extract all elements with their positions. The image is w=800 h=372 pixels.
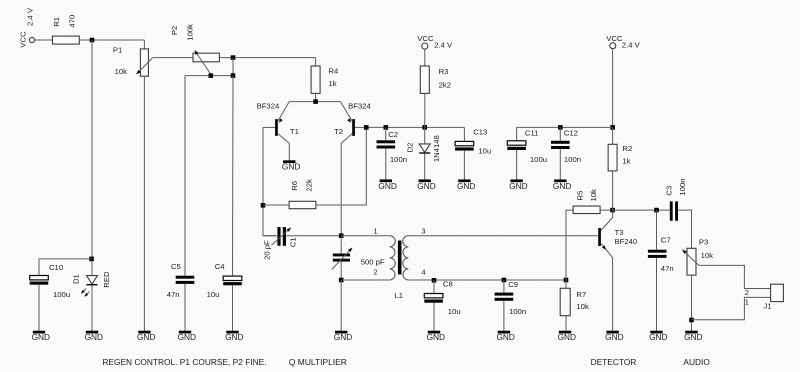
svg-text:GND: GND	[457, 181, 475, 191]
resistor R1	[53, 36, 80, 44]
svg-text:GND: GND	[225, 332, 243, 342]
wire	[184, 76, 186, 276]
power VCC terminal (R3)	[422, 43, 428, 49]
ground (C13)	[458, 179, 470, 182]
svg-text:P2: P2	[170, 26, 179, 35]
svg-text:100n: 100n	[564, 155, 581, 164]
junction (tank top)	[339, 233, 344, 238]
variable capacitor 500 pF	[333, 254, 350, 257]
junction (P2 right)	[231, 55, 236, 60]
capacitor C3 (coupling)	[670, 201, 673, 220]
svg-text:GND: GND	[684, 332, 702, 342]
diode D2 (1N4148)	[419, 144, 430, 152]
svg-text:1k: 1k	[329, 79, 337, 88]
ground (tank)	[335, 331, 347, 334]
wire	[340, 280, 342, 331]
wire	[612, 127, 614, 144]
svg-text:2.4 V: 2.4 V	[622, 41, 641, 50]
svg-text:100n: 100n	[678, 178, 687, 195]
svg-text:100k: 100k	[186, 24, 195, 41]
svg-text:VCC: VCC	[19, 31, 28, 48]
transformer L1 core	[398, 241, 402, 275]
wire	[612, 210, 614, 217]
wire rail to R4	[315, 58, 317, 66]
svg-text:GND: GND	[178, 332, 196, 342]
svg-text:C3: C3	[665, 186, 674, 196]
base rail T2	[366, 126, 464, 128]
svg-text:10u: 10u	[448, 307, 461, 316]
svg-text:C2: C2	[388, 130, 398, 139]
svg-text:C10: C10	[49, 263, 63, 272]
svg-text:GND: GND	[509, 181, 527, 191]
svg-text:J1: J1	[764, 302, 772, 311]
wire	[185, 75, 233, 77]
detector rail right	[613, 209, 670, 211]
svg-text:500 pF: 500 pF	[361, 258, 385, 267]
svg-text:10k: 10k	[589, 189, 598, 202]
svg-text:P3: P3	[699, 238, 708, 247]
capacitor C5	[176, 276, 195, 279]
capacitor C13 (electrolytic)	[455, 141, 474, 145]
svg-text:GND: GND	[334, 332, 352, 342]
svg-text:C8: C8	[443, 280, 453, 289]
wire	[612, 171, 614, 210]
svg-text:GND: GND	[417, 181, 435, 191]
trimmer capacitor C1 (20 pF)	[277, 227, 280, 246]
transformer L1 primary winding	[390, 236, 396, 280]
collector wire T2 down	[340, 143, 342, 236]
svg-text:T3: T3	[615, 228, 624, 237]
svg-text:BF324: BF324	[348, 101, 371, 110]
wire	[143, 40, 145, 49]
svg-text:T1: T1	[290, 127, 299, 136]
wire	[340, 262, 342, 280]
wire P3 wiper to J1 pin 2	[699, 265, 771, 288]
wire C13 drop	[463, 127, 465, 141]
svg-text:GND: GND	[282, 162, 300, 172]
svg-text:D2: D2	[405, 143, 414, 153]
wire	[559, 149, 561, 179]
wire	[385, 127, 387, 140]
svg-text:100n: 100n	[509, 307, 526, 316]
svg-text:22k: 22k	[304, 179, 313, 192]
P2 wiper	[195, 50, 211, 74]
wire	[612, 258, 614, 331]
svg-text:P1: P1	[113, 46, 122, 55]
svg-text:10k: 10k	[701, 251, 714, 260]
transistor T3 (BF240 npn)	[598, 228, 601, 246]
svg-text:R6: R6	[290, 181, 299, 191]
resistor R2	[608, 144, 617, 171]
wire	[565, 316, 567, 331]
svg-text:1k: 1k	[622, 157, 630, 166]
svg-text:100n: 100n	[390, 155, 407, 164]
junction (R7 top)	[564, 278, 569, 283]
svg-text:2.4 V: 2.4 V	[434, 41, 453, 50]
junction (R3/D2)	[422, 125, 427, 130]
junction (R6 left)	[261, 203, 266, 208]
svg-text:AUDIO: AUDIO	[683, 357, 710, 367]
wire	[516, 127, 518, 140]
wire	[559, 127, 561, 140]
svg-text:1: 1	[373, 227, 377, 236]
svg-text:R1: R1	[52, 17, 61, 27]
wire	[600, 209, 613, 211]
junction (R6 riser)	[364, 125, 369, 130]
transformer L1 secondary winding	[403, 236, 409, 280]
wire	[656, 258, 658, 331]
svg-text:2.4 V: 2.4 V	[25, 7, 34, 26]
wire T1 base left	[263, 127, 277, 235]
wire	[433, 280, 435, 293]
svg-text:R2: R2	[622, 144, 632, 153]
svg-text:2: 2	[373, 268, 377, 277]
svg-text:2: 2	[745, 288, 749, 297]
ground (C9)	[498, 331, 510, 334]
junction (tank bottom)	[339, 278, 344, 283]
wire	[385, 149, 387, 180]
capacitor C4 (electrolytic)	[223, 276, 242, 280]
resistor R6	[289, 201, 316, 208]
svg-text:R4: R4	[329, 67, 340, 76]
wire	[79, 39, 144, 41]
svg-text:GND: GND	[605, 332, 623, 342]
wire to L1 pin 2	[341, 279, 390, 281]
wire	[656, 210, 658, 250]
svg-text:1: 1	[745, 298, 749, 307]
resistor R5	[573, 206, 600, 214]
wire	[286, 235, 341, 237]
wire	[219, 57, 315, 59]
junction (detector rail)	[610, 208, 615, 213]
svg-text:GND: GND	[427, 332, 445, 342]
junction (C7)	[654, 208, 659, 213]
wire	[424, 49, 426, 66]
svg-text:REGEN CONTROL. P1 COURSE, P2 F: REGEN CONTROL. P1 COURSE, P2 FINE.	[102, 357, 266, 367]
ground (R7)	[559, 331, 571, 334]
wire C11/C12 rail	[517, 126, 613, 128]
svg-text:3: 3	[421, 227, 425, 236]
svg-text:GND: GND	[496, 332, 514, 342]
wire	[503, 280, 505, 293]
svg-text:C9: C9	[508, 280, 518, 289]
svg-text:DETECTOR: DETECTOR	[591, 357, 637, 367]
svg-text:RED: RED	[102, 271, 111, 288]
wire P1 top-to-bottom-gnd	[143, 76, 145, 331]
wire	[612, 49, 614, 128]
power VCC terminal (R2)	[610, 43, 616, 49]
svg-text:BF324: BF324	[257, 101, 280, 110]
svg-text:GND: GND	[137, 332, 155, 342]
svg-text:GND: GND	[553, 181, 571, 191]
D1 emission arrows	[81, 289, 86, 294]
potentiometer P1	[140, 49, 148, 76]
wire	[232, 76, 235, 277]
wire	[433, 303, 435, 331]
svg-text:GND: GND	[32, 332, 50, 342]
svg-text:470: 470	[67, 15, 76, 28]
connector J1	[771, 284, 784, 301]
ground (P1)	[138, 331, 150, 334]
ground (D1)	[86, 331, 98, 334]
wire	[263, 204, 289, 206]
ground (D2)	[419, 179, 431, 182]
potentiometer P2	[193, 53, 219, 62]
transistor T2 (BF324 pnp)	[352, 119, 355, 136]
wire	[516, 150, 518, 179]
wire to L1 pin 1	[341, 235, 390, 237]
potentiometer P3	[687, 248, 696, 275]
svg-text:47n: 47n	[661, 264, 674, 273]
junction (P2 wiper tie)	[209, 73, 214, 78]
junction (C12)	[558, 125, 563, 130]
ground (C11)	[510, 179, 522, 182]
capacitor C10 (electrolytic)	[30, 276, 49, 280]
svg-text:C1: C1	[289, 237, 298, 247]
wire C10 tap	[39, 259, 92, 276]
junction (C8)	[432, 278, 437, 283]
svg-text:GND: GND	[649, 332, 667, 342]
wire	[678, 210, 692, 248]
emitter rail T1-T2	[289, 101, 340, 103]
wire	[503, 301, 505, 331]
svg-text:C7: C7	[661, 236, 671, 245]
svg-text:Q MULTIPLIER: Q MULTIPLIER	[289, 357, 347, 367]
wire	[232, 285, 234, 330]
wire	[463, 151, 465, 180]
svg-text:10u: 10u	[207, 290, 220, 299]
wire	[315, 93, 317, 101]
svg-text:100u: 100u	[530, 155, 547, 164]
junction (C10 tap)	[89, 257, 94, 262]
svg-text:47n: 47n	[167, 290, 180, 299]
ground (C8)	[428, 331, 440, 334]
P3 wiper	[682, 250, 699, 266]
wire	[424, 127, 426, 143]
svg-text:GND: GND	[378, 181, 396, 191]
junction (C4 branch)	[231, 73, 236, 78]
svg-text:4: 4	[421, 268, 425, 277]
transistor T1 (BF324 pnp)	[275, 119, 278, 136]
capacitor C9	[495, 293, 514, 296]
ground (C2)	[380, 179, 392, 182]
wire	[565, 280, 567, 288]
wire	[691, 275, 693, 331]
wire R5 feedback riser	[566, 210, 573, 280]
wire L1 pin 3 to T3 base	[408, 235, 598, 237]
junction (P3 bottom / J1 pin1)	[689, 318, 694, 323]
svg-text:C5: C5	[171, 262, 181, 271]
svg-text:R5: R5	[575, 191, 584, 201]
junction (C2)	[384, 125, 389, 130]
junction (C11/C12 rail)	[610, 125, 615, 130]
wire	[35, 39, 53, 41]
svg-text:C12: C12	[564, 129, 578, 138]
svg-text:1N4148: 1N4148	[432, 135, 441, 162]
resistor R7	[560, 288, 570, 315]
svg-text:R3: R3	[439, 67, 449, 76]
junction (C9)	[502, 278, 507, 283]
wire	[340, 236, 342, 254]
wire R6 right riser	[316, 127, 366, 205]
capacitor C12	[551, 141, 570, 144]
junction (R4 bottom)	[313, 99, 318, 104]
capacitor C7	[648, 250, 667, 253]
P1 wiper	[137, 58, 153, 75]
svg-text:R7: R7	[576, 290, 586, 299]
svg-text:C4: C4	[215, 262, 226, 271]
svg-text:20 pF: 20 pF	[262, 240, 271, 260]
capacitor C11 (electrolytic)	[507, 141, 526, 145]
svg-text:BF240: BF240	[615, 237, 638, 246]
svg-text:VCC: VCC	[606, 34, 623, 43]
svg-text:T2: T2	[334, 127, 343, 136]
svg-text:L1: L1	[395, 291, 404, 300]
capacitor C2	[377, 140, 396, 143]
ground (P3)	[685, 331, 697, 334]
wire	[424, 93, 426, 127]
capacitor C8 (electrolytic)	[424, 294, 443, 298]
svg-text:2k2: 2k2	[439, 80, 451, 89]
svg-text:VCC: VCC	[417, 34, 434, 43]
resistor R3	[420, 66, 429, 93]
wire	[184, 284, 186, 331]
wire	[288, 143, 290, 160]
power VCC terminal (left, 2.4 V)	[29, 37, 34, 42]
ground (C4)	[226, 331, 238, 334]
wire	[232, 58, 234, 76]
wire L1 pin 4 rail	[408, 279, 566, 281]
ground (T1 collector)	[283, 160, 295, 163]
wire	[91, 285, 93, 330]
svg-text:C13: C13	[473, 128, 487, 137]
ground (T3 emitter)	[606, 331, 618, 334]
wire	[424, 154, 426, 180]
ground (C7)	[650, 331, 662, 334]
wire J1 pin 1 return	[692, 297, 771, 319]
wire C1 left leg	[263, 235, 277, 237]
ground (C5)	[179, 331, 191, 334]
svg-text:D1: D1	[71, 274, 80, 284]
svg-text:10k: 10k	[576, 302, 589, 311]
wire	[38, 285, 40, 331]
ground (C12)	[554, 179, 566, 182]
ground (C10)	[33, 331, 45, 334]
svg-text:100u: 100u	[53, 290, 70, 299]
svg-text:10u: 10u	[478, 147, 491, 156]
svg-text:10k: 10k	[115, 67, 128, 76]
resistor R4	[311, 66, 320, 93]
wire P1 wiper to P2	[153, 57, 193, 59]
svg-text:GND: GND	[85, 332, 103, 342]
LED D1	[87, 276, 98, 284]
junction node A (R1 / P1 / D1)	[90, 38, 95, 43]
svg-text:GND: GND	[558, 332, 576, 342]
svg-text:C11: C11	[525, 129, 539, 138]
wire node A down	[91, 40, 93, 276]
